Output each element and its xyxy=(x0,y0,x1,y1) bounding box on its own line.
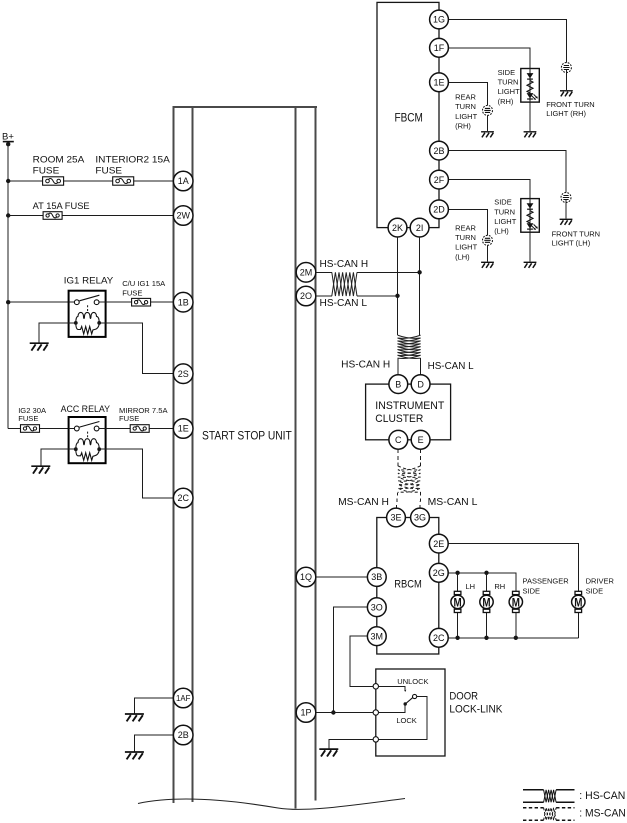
motor RH xyxy=(480,591,493,612)
svg-text:RH: RH xyxy=(494,582,505,591)
svg-text:1A: 1A xyxy=(178,176,189,186)
svg-text:ROOM 25A: ROOM 25A xyxy=(33,155,85,166)
motor LH xyxy=(451,591,464,612)
fuse INTERIOR2 15A xyxy=(113,177,134,185)
motor passenger xyxy=(509,591,522,612)
junction rail LH xyxy=(455,636,459,640)
relay ACC xyxy=(69,417,106,463)
wire 3M to door lock unlock terminal xyxy=(350,636,373,686)
svg-text:E: E xyxy=(418,435,424,445)
connector 3O xyxy=(367,598,386,617)
wire 3O to 1P node xyxy=(333,607,367,712)
start stop unit right outer wall xyxy=(315,107,317,801)
connector B xyxy=(389,375,408,394)
svg-text:DOOR: DOOR xyxy=(449,691,478,703)
svg-text:2F: 2F xyxy=(434,175,445,185)
junction 2G RH xyxy=(484,571,488,575)
svg-text:2I: 2I xyxy=(416,223,424,233)
junction row 2W xyxy=(6,213,10,217)
connector 2M xyxy=(296,263,316,283)
svg-text:2G: 2G xyxy=(433,568,445,578)
connector 1A xyxy=(173,171,193,191)
module FBCM box xyxy=(377,2,439,227)
wire ACC to fuse to 1E xyxy=(106,428,174,430)
svg-text:HS-CAN L: HS-CAN L xyxy=(428,361,475,372)
svg-text:MS-CAN H: MS-CAN H xyxy=(338,497,389,508)
wire row to 2W xyxy=(8,215,173,217)
connector 2F xyxy=(430,170,449,189)
svg-text:TURN: TURN xyxy=(455,233,476,242)
svg-text:: HS-CAN: : HS-CAN xyxy=(579,790,625,802)
svg-text:SIDE: SIDE xyxy=(494,198,512,207)
svg-text:START STOP UNIT: START STOP UNIT xyxy=(202,428,292,442)
ground side turn RH xyxy=(524,132,537,138)
svg-text:(LH): (LH) xyxy=(455,252,470,261)
svg-text:DRIVER: DRIVER xyxy=(586,577,615,586)
svg-text:REAR: REAR xyxy=(455,223,476,232)
svg-text:FBCM: FBCM xyxy=(395,112,423,125)
svg-text:2B: 2B xyxy=(178,730,189,740)
wire HS-CAN L from 2O xyxy=(316,295,398,297)
svg-text:B: B xyxy=(395,379,401,389)
svg-text:CLUSTER: CLUSTER xyxy=(375,413,423,425)
wire IG1 to fuse to 1B xyxy=(106,301,174,303)
svg-text:HS-CAN H: HS-CAN H xyxy=(341,360,390,371)
connector 1E fbcm xyxy=(430,73,449,92)
ground rear turn LH xyxy=(481,262,494,268)
wire row to 1A xyxy=(8,180,173,182)
wire 2B to front turn light LH xyxy=(449,151,566,196)
twisted pair horizontal xyxy=(332,272,357,296)
svg-text:SIDE: SIDE xyxy=(498,68,516,77)
svg-text:FUSE: FUSE xyxy=(18,414,38,423)
svg-text:2S: 2S xyxy=(178,369,189,379)
led side turn RH xyxy=(521,69,540,103)
ground door lock xyxy=(319,749,338,756)
svg-text:: MS-CAN: : MS-CAN xyxy=(579,808,626,820)
svg-text:HS-CAN L: HS-CAN L xyxy=(320,298,368,309)
ground side turn LH xyxy=(524,262,537,268)
connector 2K xyxy=(388,218,407,237)
wire 1G to front turn light RH xyxy=(449,20,567,66)
svg-text:2D: 2D xyxy=(433,205,445,215)
svg-text:FRONT TURN: FRONT TURN xyxy=(546,100,594,109)
connector 2O xyxy=(296,286,316,306)
connector 2B fbcm xyxy=(430,141,449,160)
svg-text:ACC RELAY: ACC RELAY xyxy=(61,404,111,415)
start stop unit top edge xyxy=(173,106,317,108)
wire 2B to ground xyxy=(134,735,173,751)
connector 1F xyxy=(430,38,449,57)
connector 2D xyxy=(430,200,449,219)
connector C xyxy=(389,430,408,449)
connector 1Q xyxy=(296,567,316,587)
wire 2F to side turn light LH xyxy=(449,180,530,262)
connector 2W xyxy=(173,206,193,226)
svg-text:LIGHT: LIGHT xyxy=(494,217,517,226)
terminal common xyxy=(373,710,378,715)
connector 1P xyxy=(296,703,316,723)
svg-text:LIGHT: LIGHT xyxy=(455,243,478,252)
connector 1AF xyxy=(173,688,193,708)
svg-text:2K: 2K xyxy=(392,223,403,233)
connector 2B unit xyxy=(173,725,193,745)
connector 2S xyxy=(173,364,193,384)
svg-text:FUSE: FUSE xyxy=(95,166,122,177)
svg-text:(RH): (RH) xyxy=(455,122,471,131)
svg-text:TURN: TURN xyxy=(494,207,515,216)
wire HS-CAN H from 2M xyxy=(316,271,420,273)
fuse IG2 30A xyxy=(21,425,40,433)
svg-text:LIGHT (LH): LIGHT (LH) xyxy=(552,239,591,248)
svg-text:SIDE: SIDE xyxy=(586,586,604,595)
connector 2C rbcm xyxy=(429,628,448,647)
wire row to IG1 relay xyxy=(8,301,68,303)
wire B+ bus vertical xyxy=(7,144,9,428)
svg-text:(RH): (RH) xyxy=(498,97,514,106)
junction 2G LH xyxy=(455,571,459,575)
svg-text:1E: 1E xyxy=(178,424,189,434)
ground front turn LH xyxy=(560,219,573,225)
wire passenger motor drop xyxy=(515,612,517,637)
svg-text:2M: 2M xyxy=(300,268,313,278)
fuse C/U IG1 15A xyxy=(132,298,151,306)
connector 3M xyxy=(367,627,386,646)
junction rail RH xyxy=(484,636,488,640)
relay IG1 xyxy=(69,291,106,337)
svg-text:MS-CAN L: MS-CAN L xyxy=(428,497,478,508)
wire unlock contact xyxy=(379,686,406,689)
svg-text:SIDE: SIDE xyxy=(523,586,541,595)
connector 1G xyxy=(430,10,449,29)
module RBCM box xyxy=(377,518,439,655)
junction 1P/3O xyxy=(331,710,335,714)
fuse MIRROR 7.5A xyxy=(130,425,149,433)
wire MS-CAN L dashed xyxy=(419,449,421,508)
junction row 1A xyxy=(6,179,10,183)
svg-text:1B: 1B xyxy=(178,297,189,307)
svg-text:INTERIOR2 15A: INTERIOR2 15A xyxy=(95,155,170,166)
ground ACC xyxy=(31,466,50,473)
svg-text:1P: 1P xyxy=(300,708,311,718)
junction HS-CAN L xyxy=(395,294,399,298)
svg-text:1AF: 1AF xyxy=(176,694,191,703)
svg-text:C/U IG1 15A: C/U IG1 15A xyxy=(122,279,166,288)
node B+ xyxy=(6,142,10,146)
svg-text:IG1 RELAY: IG1 RELAY xyxy=(64,275,114,286)
connector 2E xyxy=(429,534,448,553)
svg-text:1F: 1F xyxy=(434,43,445,53)
junction row IG1 xyxy=(6,300,10,304)
svg-text:2B: 2B xyxy=(433,146,444,156)
fuse ROOM 25A xyxy=(43,177,64,185)
svg-text:3G: 3G xyxy=(414,513,426,523)
svg-text:2W: 2W xyxy=(176,211,190,221)
svg-text:3M: 3M xyxy=(371,631,384,641)
lever tip xyxy=(413,694,417,698)
connector 3E xyxy=(387,508,406,527)
lamp front turn LH xyxy=(561,193,571,203)
junction rail passenger xyxy=(514,636,518,640)
break wavy line xyxy=(138,799,405,810)
connector 1E unit xyxy=(173,419,193,439)
wire IG1 coil to ground xyxy=(39,323,68,343)
svg-text:LIGHT (RH): LIGHT (RH) xyxy=(546,109,586,118)
svg-text:C: C xyxy=(395,435,402,445)
svg-text:2C: 2C xyxy=(433,633,445,643)
switch lever xyxy=(405,697,413,704)
lamp front turn RH xyxy=(561,63,571,73)
module INSTRUMENT CLUSTER box xyxy=(366,384,451,440)
svg-text:1E: 1E xyxy=(433,78,444,88)
svg-text:2O: 2O xyxy=(300,291,312,301)
legend HS-CAN wires xyxy=(523,790,575,803)
svg-text:3O: 3O xyxy=(371,602,383,612)
module DOOR LOCK-LINK box xyxy=(376,669,445,756)
wire common to pivot xyxy=(379,704,406,713)
start stop unit left outer wall xyxy=(173,107,175,803)
connector D xyxy=(411,375,430,394)
twisted pair MS dashed xyxy=(398,466,421,492)
wire lever to lock terminal xyxy=(379,697,427,740)
connector 2I xyxy=(410,218,429,237)
wire IG1 coil to 2S xyxy=(106,323,174,374)
svg-text:D: D xyxy=(417,379,424,389)
legend MS twist xyxy=(544,808,557,821)
svg-text:(LH): (LH) xyxy=(494,227,509,236)
wire MS-CAN H dashed xyxy=(396,449,398,508)
wire 1E to rear turn light RH xyxy=(449,82,488,131)
wire RH motor drop xyxy=(486,573,488,638)
legend MS-CAN wires xyxy=(523,808,575,821)
wire 2C motor return rail xyxy=(448,637,578,639)
svg-text:TURN: TURN xyxy=(498,78,519,87)
svg-text:3B: 3B xyxy=(371,572,382,582)
svg-text:REAR: REAR xyxy=(455,93,476,102)
twisted pair vertical xyxy=(398,335,421,358)
wire 1AF to ground xyxy=(134,698,173,713)
svg-text:2C: 2C xyxy=(177,493,189,503)
svg-text:LIGHT: LIGHT xyxy=(455,112,478,121)
svg-text:3E: 3E xyxy=(390,513,401,523)
wire 2E to driver motor xyxy=(448,544,578,592)
junction HS-CAN H xyxy=(417,270,421,274)
terminal lock xyxy=(373,737,378,742)
svg-text:HS-CAN H: HS-CAN H xyxy=(320,259,369,270)
ground rear turn RH xyxy=(481,132,494,138)
svg-text:UNLOCK: UNLOCK xyxy=(397,677,428,686)
ground IG1 xyxy=(30,343,49,350)
wire twist to D xyxy=(419,358,421,375)
connector E xyxy=(411,430,430,449)
wire 2G to motors xyxy=(448,573,515,592)
wire 1F to side turn light RH xyxy=(449,48,530,131)
svg-text:FUSE: FUSE xyxy=(33,166,60,177)
led side turn LH xyxy=(521,199,540,233)
start stop unit right inner wall xyxy=(295,107,297,809)
svg-text:INSTRUMENT: INSTRUMENT xyxy=(375,400,444,412)
svg-text:LOCK: LOCK xyxy=(396,716,416,725)
terminal unlock xyxy=(373,684,378,689)
svg-text:LOCK-LINK: LOCK-LINK xyxy=(449,704,503,716)
wire twist to B xyxy=(397,358,399,375)
svg-text:FUSE: FUSE xyxy=(122,288,142,297)
svg-text:PASSENGER: PASSENGER xyxy=(523,577,570,586)
start stop unit left inner wall xyxy=(192,107,194,802)
svg-text:1Q: 1Q xyxy=(300,572,312,582)
svg-text:TURN: TURN xyxy=(455,102,476,111)
svg-text:FUSE: FUSE xyxy=(119,414,139,423)
svg-text:AT 15A FUSE: AT 15A FUSE xyxy=(33,201,90,212)
wire 2D to rear turn light LH xyxy=(449,209,488,261)
connector 3G xyxy=(411,508,430,527)
svg-text:1G: 1G xyxy=(433,15,445,25)
switch pivot xyxy=(404,702,407,705)
wire lock terminal to ground xyxy=(329,739,373,748)
ground front turn RH xyxy=(560,91,573,97)
wire 1Q to 3B xyxy=(316,576,367,578)
lamp rear turn LH xyxy=(483,235,493,245)
ground 1AF xyxy=(125,714,144,721)
connector 3B xyxy=(367,568,386,587)
legend HS twist xyxy=(544,790,557,803)
ground 2B xyxy=(125,752,144,759)
svg-text:LH: LH xyxy=(466,582,476,591)
wire 2I down xyxy=(419,237,421,335)
motor driver xyxy=(572,591,585,612)
wire ACC coil to ground xyxy=(41,449,69,465)
lamp rear turn RH xyxy=(483,105,493,115)
connector 1B xyxy=(173,292,193,312)
svg-text:RBCM: RBCM xyxy=(394,578,422,590)
wire 2K down xyxy=(397,237,399,335)
svg-text:LIGHT: LIGHT xyxy=(498,87,521,96)
wire LH motor drop xyxy=(457,573,459,638)
svg-text:2E: 2E xyxy=(433,539,444,549)
wire 1P to door lock common xyxy=(316,712,373,714)
fuse AT 15A xyxy=(43,212,62,220)
unlock contact arrow xyxy=(404,690,406,692)
connector 2C unit xyxy=(173,488,193,508)
connector 2G xyxy=(429,563,448,582)
svg-text:FRONT TURN: FRONT TURN xyxy=(552,229,600,238)
wire driver motor drop xyxy=(577,612,579,637)
wire row to ACC relay xyxy=(8,428,68,430)
wire ACC coil to 2C xyxy=(106,449,174,498)
